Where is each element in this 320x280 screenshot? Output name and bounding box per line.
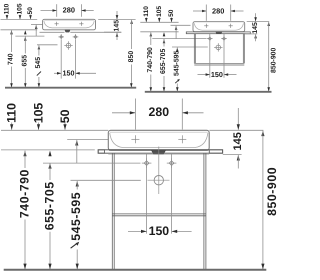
washbasin inner rim line (bottom view)	[110, 131, 208, 133]
dimension 105 label+stem (top-right view)	[156, 6, 163, 23]
dimension 110 label+stem (top-right view)	[143, 6, 150, 22]
dimension 145 (bottom view)	[223, 108, 244, 169]
extension line 50 level (bottom view)	[67, 139, 108, 141]
svg-text:850-900: 850-900	[270, 47, 277, 72]
dimension 850-900 line (bottom view)	[261, 131, 279, 270]
dimension 850-900 line (top-right view)	[267, 22, 277, 92]
dimension 50 label+stem (top-right view)	[168, 9, 175, 22]
svg-text:110: 110	[4, 3, 11, 14]
washbasin outline (bottom view)	[108, 130, 209, 150]
dimension 150 (top-left view)	[54, 69, 96, 78]
extension line console level (top-right view)	[140, 31, 178, 33]
console left leg (top-right view)	[194, 34, 195, 64]
console right leg (bottom view)	[204, 153, 206, 269]
dimension 105 label+stem (top-left view)	[17, 3, 24, 19]
extension line 50 level (top-left view)	[31, 23, 42, 25]
console plate left end cap (bottom view)	[98, 150, 104, 153]
svg-text:150: 150	[63, 69, 75, 78]
drain outlet circle (top-right view)	[214, 43, 222, 51]
svg-text:145: 145	[232, 132, 244, 150]
extension lines for 150 (bottom view)	[147, 154, 172, 234]
svg-text:655-705: 655-705	[43, 181, 57, 230]
svg-text:545-595: 545-595	[174, 50, 181, 75]
console plate right end cap (bottom view)	[209, 150, 222, 153]
floor line (bottom view)	[4, 269, 267, 271]
svg-text:280: 280	[149, 105, 170, 119]
svg-text:655: 655	[22, 55, 29, 67]
drain outlet circle (top-left view)	[64, 41, 72, 49]
extension line 50 level (top-right view)	[171, 24, 191, 26]
arrow for 50 dimension (top-right view)	[175, 26, 178, 39]
console left leg (bottom view)	[112, 153, 114, 269]
extension line 545 level (top-right view)	[172, 46, 208, 48]
svg-text:105: 105	[32, 103, 46, 124]
svg-text:280: 280	[63, 6, 75, 15]
washbasin bowl interior (top-right view)	[194, 23, 243, 30]
svg-text:110: 110	[5, 103, 19, 123]
dimension 850 line (top-left view)	[128, 20, 135, 88]
mounting hole diamond right (top-left view)	[73, 34, 79, 40]
dimension 740-790 line (top-right view)	[150, 32, 153, 45]
extension line rim level (top-left view)	[1, 19, 38, 21]
dimension 50 label+stem (top-left view)	[27, 7, 34, 19]
console plate (top-right view)	[186, 32, 250, 34]
dimension 110 label+stem (top-left view)	[4, 3, 11, 19]
dimension 655-705 line (bottom view)	[43, 151, 57, 270]
dimension 150 (top-right view)	[198, 70, 237, 79]
drain stub (top-right view)	[216, 32, 222, 34]
mounting hole diamond left (bottom view)	[142, 158, 152, 168]
mounting hole diamond right (bottom view)	[167, 158, 177, 168]
dimension 280 (bottom view)	[112, 99, 204, 130]
extension lines for 150 (top-right view)	[210, 34, 224, 78]
svg-text:50: 50	[168, 9, 175, 17]
svg-text:145: 145	[113, 20, 120, 32]
dimension 280 (top-left view)	[41, 4, 94, 17]
washbasin bottom edge thick (bottom view)	[109, 149, 209, 151]
tap hole cross left (bottom view)	[131, 135, 139, 143]
svg-text:850-900: 850-900	[265, 167, 279, 216]
floor line (top-left view)	[5, 87, 136, 89]
svg-text:145: 145	[252, 22, 259, 34]
extension line 545 level (top-left view)	[37, 44, 58, 46]
console bottom crossbar (top-right view)	[194, 63, 244, 65]
dimension 145 (top-right view)	[245, 13, 259, 41]
washbasin bowl interior (bottom view)	[110, 133, 208, 148]
console plate (bottom view)	[98, 150, 222, 153]
svg-text:740-790: 740-790	[18, 169, 32, 218]
drain trapezoid (bottom view)	[152, 150, 166, 154]
svg-text:740: 740	[8, 53, 15, 65]
extension line 655 level (top-left view)	[15, 35, 44, 37]
mounting hole diamond right (top-right view)	[221, 36, 227, 42]
dimension 655 line (top-left view)	[22, 30, 29, 87]
svg-text:740-790: 740-790	[147, 47, 154, 72]
dimension 545-595 line (bottom view)	[69, 181, 83, 269]
drain stub (top-left view)	[65, 30, 70, 32]
extension line rim right (top-right view)	[247, 21, 270, 23]
washbasin inner rim line (top-left view)	[44, 20, 94, 22]
tap hole cross right (top-left view)	[79, 22, 83, 26]
svg-text:545-595: 545-595	[69, 192, 83, 241]
dimension 50 label+stem (bottom view)	[58, 109, 72, 129]
dimension 150 (bottom view)	[128, 224, 192, 238]
mounting hole diamond left (top-left view)	[58, 34, 64, 40]
bracket line below basin (top-left view)	[40, 31, 122, 33]
dimension 105 label+stem (bottom view)	[32, 103, 46, 130]
dimension 280 (top-right view)	[193, 5, 244, 21]
dimension 740-790 line (bottom view)	[18, 151, 32, 270]
dimension 655-705 line (top-right view)	[160, 32, 167, 91]
washbasin outline (top-left view)	[43, 19, 96, 30]
washbasin bowl interior (top-left view)	[44, 21, 94, 28]
svg-text:105: 105	[156, 6, 163, 17]
tap hole cross right (bottom view)	[178, 135, 186, 143]
svg-text:50: 50	[27, 7, 34, 15]
extension line basin underside (bottom view)	[1, 149, 95, 151]
console plate shadow line (bottom view)	[108, 153, 209, 155]
mounting hole diamond left (top-right view)	[207, 36, 213, 42]
svg-text:280: 280	[212, 6, 224, 15]
dimension 110 label+stem (bottom view)	[5, 103, 19, 130]
tap hole cross left (top-right view)	[204, 24, 208, 28]
dimension 545 line (top-left view)	[35, 45, 42, 87]
svg-text:150: 150	[211, 70, 223, 79]
svg-text:850: 850	[128, 51, 135, 63]
svg-text:105: 105	[17, 3, 24, 14]
extension line rim right (bottom view)	[209, 129, 263, 131]
drain centerline (bottom view)	[158, 147, 160, 195]
floor line (top-right view)	[145, 91, 272, 93]
extension line rim level (bottom view)	[1, 129, 108, 131]
svg-text:110: 110	[143, 6, 150, 17]
extension line 655 level (top-right view)	[152, 38, 206, 40]
svg-text:50: 50	[58, 109, 72, 123]
console right leg (top-right view)	[243, 34, 244, 64]
dimension 740 line (top-left view)	[8, 30, 15, 87]
svg-text:150: 150	[149, 224, 170, 238]
svg-text:545: 545	[35, 57, 42, 69]
svg-text:655-705: 655-705	[160, 48, 167, 73]
extension line rim right (top-left view)	[98, 19, 135, 21]
extension line 545 level (bottom view)	[71, 179, 141, 181]
washbasin outline (top-right view)	[193, 22, 245, 32]
arrow for 50 dimension (top-left view)	[35, 25, 38, 36]
arrow for 50 dimension (bottom view)	[75, 140, 78, 163]
dimension 545-595 line (top-right view)	[174, 47, 181, 91]
tap hole cross right (top-right view)	[229, 24, 233, 28]
console bottom crossbar (bottom view)	[112, 214, 206, 216]
dimension 145 (top-left view)	[104, 11, 121, 40]
extension lines for 150 (top-left view)	[61, 40, 75, 79]
tap hole cross left (top-left view)	[55, 22, 59, 26]
drain outlet circle (bottom view)	[148, 176, 170, 185]
extension line basin underside (top-left view)	[1, 29, 38, 31]
mounting diamonds level line (bottom view)	[43, 162, 141, 164]
dimension 740-790 text+line (top-right view)	[147, 47, 154, 92]
extension line rim level (top-right view)	[140, 21, 178, 23]
